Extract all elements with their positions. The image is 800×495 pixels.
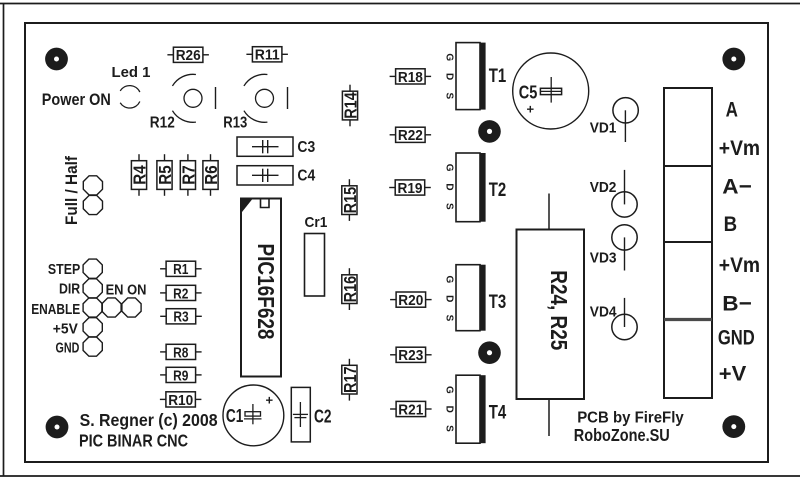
svg-text:EN ON: EN ON	[106, 282, 147, 299]
svg-text:S: S	[443, 315, 454, 322]
svg-text:R20: R20	[398, 292, 423, 309]
svg-text:A: A	[726, 97, 738, 121]
svg-text:R15: R15	[340, 187, 360, 214]
svg-text:T2: T2	[489, 180, 507, 201]
svg-text:D: D	[443, 295, 454, 302]
svg-text:B: B	[724, 212, 738, 236]
svg-text:A−: A−	[722, 175, 752, 199]
svg-text:+Vm: +Vm	[719, 253, 760, 277]
svg-text:Power ON: Power ON	[42, 91, 111, 109]
svg-text:D: D	[443, 73, 454, 80]
svg-text:T1: T1	[489, 66, 507, 87]
svg-text:RoboZone.SU: RoboZone.SU	[574, 425, 670, 445]
svg-text:STEP: STEP	[48, 261, 80, 278]
svg-text:G: G	[443, 164, 454, 172]
svg-text:+: +	[527, 102, 535, 117]
svg-text:GND: GND	[718, 325, 755, 349]
svg-text:B−: B−	[722, 291, 752, 315]
svg-text:VD3: VD3	[590, 251, 617, 267]
svg-text:R3: R3	[173, 309, 188, 326]
svg-text:ENABLE: ENABLE	[31, 301, 80, 318]
svg-text:R8: R8	[173, 344, 188, 361]
svg-text:DIR: DIR	[59, 281, 80, 298]
svg-text:G: G	[443, 386, 454, 394]
svg-text:GND: GND	[56, 339, 80, 356]
svg-text:Cr1: Cr1	[305, 214, 328, 231]
svg-text:R21: R21	[398, 401, 423, 418]
svg-text:T4: T4	[489, 402, 507, 423]
svg-text:VD4: VD4	[590, 305, 617, 321]
svg-text:R2: R2	[173, 285, 188, 302]
svg-text:R6: R6	[201, 165, 221, 185]
svg-text:PCB by FireFly: PCB by FireFly	[577, 410, 684, 427]
svg-text:Led 1: Led 1	[112, 64, 151, 81]
svg-text:R22: R22	[398, 127, 423, 144]
svg-text:R12: R12	[150, 114, 175, 131]
svg-text:R9: R9	[173, 367, 188, 384]
svg-text:R26: R26	[176, 47, 201, 64]
svg-text:R18: R18	[398, 69, 423, 86]
svg-text:VD2: VD2	[590, 180, 617, 196]
svg-text:S: S	[443, 203, 454, 210]
svg-text:PIC BINAR CNC: PIC BINAR CNC	[79, 430, 188, 450]
svg-text:G: G	[443, 53, 454, 61]
svg-text:R7: R7	[178, 165, 198, 184]
svg-text:R16: R16	[340, 276, 360, 303]
svg-text:R10: R10	[168, 392, 193, 409]
svg-text:PIC16F628: PIC16F628	[253, 244, 279, 340]
svg-text:C2: C2	[314, 406, 332, 427]
svg-text:+: +	[266, 393, 274, 408]
svg-text:R4: R4	[129, 165, 149, 185]
svg-text:D: D	[443, 406, 454, 413]
svg-text:+V: +V	[719, 362, 747, 386]
svg-text:R13: R13	[223, 114, 247, 131]
svg-text:S: S	[443, 93, 454, 100]
svg-text:R5: R5	[155, 165, 175, 185]
svg-text:R19: R19	[398, 180, 423, 197]
svg-text:R11: R11	[255, 47, 281, 64]
svg-text:C3: C3	[297, 139, 315, 156]
svg-text:S. Regner (c) 2008: S. Regner (c) 2008	[80, 410, 218, 430]
svg-text:+Vm: +Vm	[719, 136, 760, 160]
svg-text:S: S	[443, 425, 454, 432]
svg-text:R14: R14	[340, 92, 360, 119]
svg-text:C1: C1	[226, 405, 244, 426]
svg-text:R23: R23	[398, 347, 423, 364]
svg-text:R1: R1	[173, 261, 189, 278]
svg-text:R17: R17	[340, 366, 360, 393]
svg-text:C5: C5	[519, 82, 538, 102]
svg-text:+5V: +5V	[53, 321, 79, 338]
svg-text:Full / Half: Full / Half	[62, 156, 81, 225]
svg-text:C4: C4	[297, 168, 315, 185]
svg-text:VD1: VD1	[590, 120, 617, 136]
svg-text:T3: T3	[489, 292, 507, 313]
svg-text:G: G	[443, 276, 454, 284]
svg-text:R24, R25: R24, R25	[546, 270, 572, 350]
svg-text:D: D	[443, 183, 454, 190]
